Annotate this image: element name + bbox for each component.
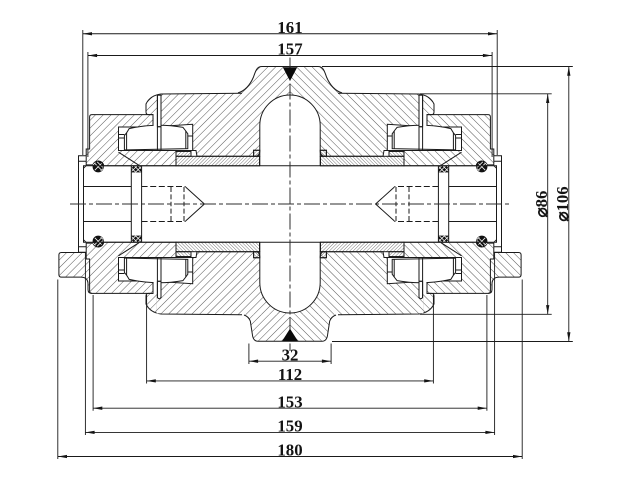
shaft bore solid	[84, 186, 132, 188]
dim 32	[249, 344, 331, 365]
floating ring seal	[131, 166, 141, 173]
svg-text:153: 153	[277, 392, 302, 411]
bushing sleeve dense hatch	[176, 156, 260, 166]
161 arrows	[83, 32, 92, 35]
dim 180	[58, 280, 522, 460]
svg-text:112: 112	[278, 365, 302, 384]
inner race chamfer	[119, 152, 140, 165]
bottom pin bore rounded end	[157, 297, 161, 298]
dim 112	[147, 295, 434, 384]
dia106 arrows	[567, 67, 570, 76]
drill cone	[186, 187, 205, 204]
dim 153	[93, 295, 487, 411]
section arrow bottom	[282, 329, 298, 342]
gap between collar and web race	[154, 115, 157, 126]
flange outline	[59, 253, 92, 294]
dimension arrows	[58, 32, 571, 458]
cross hole hidden	[171, 187, 184, 204]
svg-text:⌀106: ⌀106	[553, 186, 572, 221]
section arrow top	[283, 67, 297, 81]
end cover plate	[79, 156, 87, 204]
112 arrows	[147, 379, 156, 382]
bearing roller	[124, 125, 187, 150]
horizontal centerline	[70, 203, 512, 205]
svg-text:32: 32	[282, 345, 299, 364]
shaft joint lines	[131, 166, 141, 204]
dia86 arrows	[546, 94, 549, 103]
159 arrows	[85, 431, 94, 434]
shaft end chamfer	[84, 166, 87, 169]
ridge cap top outline	[238, 67, 290, 93]
quadrant line work (top-left), mirrored below	[79, 93, 291, 204]
bearing end ribs	[119, 135, 193, 139]
shaft bore hidden	[142, 186, 186, 188]
157 arrows	[88, 54, 97, 57]
svg-text:161: 161	[277, 18, 302, 37]
32 arrows	[249, 360, 258, 363]
roller web outline	[146, 93, 290, 156]
dim dia86	[420, 94, 552, 314]
collar outline	[86, 115, 176, 166]
retainer pin bore	[157, 95, 161, 127]
O-ring seal	[93, 161, 104, 172]
shaft outline upper half	[84, 166, 291, 204]
dim 161	[83, 30, 497, 155]
bushing outline	[176, 150, 260, 156]
ridge cap bottom outline	[244, 315, 290, 341]
180 arrows	[58, 455, 67, 458]
svg-text:159: 159	[277, 417, 302, 436]
vertical centerline	[289, 58, 291, 352]
right half mirror	[290, 60, 530, 350]
bottom pin bore shortened: hatch patch	[157, 298, 162, 313]
svg-text:157: 157	[277, 40, 302, 59]
dimension texts	[277, 18, 572, 460]
153 arrows	[93, 407, 102, 410]
dim 159	[85, 253, 494, 435]
dim 157	[88, 52, 492, 157]
dim dia106	[322, 67, 573, 342]
svg-text:⌀86: ⌀86	[532, 191, 551, 218]
ridge cap bottom hatch	[244, 315, 290, 341]
hatched regions of roller body, collars, flange (left half)	[50, 60, 290, 350]
svg-text:180: 180	[277, 441, 302, 460]
